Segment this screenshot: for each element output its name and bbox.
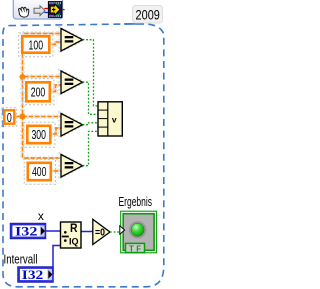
toolbar xyxy=(13,0,62,19)
input arrow glyph xyxy=(120,226,125,234)
ants outline around constant 300 xyxy=(24,122,55,147)
ants outline around constant 400 xyxy=(24,159,55,184)
tool icon: film/vi body xyxy=(48,2,62,18)
ants outline around constant 0 xyxy=(2,108,17,126)
control terminal I32 Intervall xyxy=(18,267,54,283)
svg-text:400: 400 xyxy=(32,164,47,179)
boolean wire from comparator 4 to OR input 4 xyxy=(83,131,99,165)
numeric constant 300 xyxy=(27,126,50,143)
svg-text:TF: TF xyxy=(129,245,144,254)
svg-text:=0: =0 xyxy=(95,227,105,239)
comparator Equal? 4 xyxy=(61,155,83,178)
boolean wire from comparator 1 to OR input 1 xyxy=(83,40,99,106)
svg-text:0: 0 xyxy=(7,110,12,125)
ants outline around comparator 2 xyxy=(59,69,85,96)
equal to zero node xyxy=(93,219,110,244)
svg-text:2009: 2009 xyxy=(136,8,160,23)
comparator Equal? 2 xyxy=(61,71,83,94)
junction dot at branch 2 xyxy=(20,74,26,80)
svg-text:R: R xyxy=(70,221,78,235)
control terminal I32 x xyxy=(10,223,46,239)
tool icon: film/vi yellow arrow xyxy=(50,4,60,15)
svg-text:v: v xyxy=(112,115,117,125)
svg-text:IQ: IQ xyxy=(69,237,79,247)
boolean wire from comparator 2 to OR input 2 xyxy=(83,82,99,114)
boolean indicator Ergebnis xyxy=(121,211,157,253)
numeric constant 200 xyxy=(26,82,50,101)
svg-text:x: x xyxy=(38,209,44,223)
ants outline around comparator 3 xyxy=(59,112,85,139)
comparator Equal? 3 xyxy=(61,114,83,137)
LED xyxy=(129,221,146,238)
svg-text:300: 300 xyxy=(31,127,46,142)
compound arithmetic OR node xyxy=(98,102,122,136)
free label 2009 xyxy=(133,5,163,23)
tool icon: film/vi red exit lead xyxy=(62,9,65,11)
ants outline around comparator 4 xyxy=(59,153,85,180)
numeric constant 400 xyxy=(28,163,51,180)
tool icon: film/vi blue lead xyxy=(44,12,48,14)
wire: Intervall terminal up to quotient node xyxy=(53,246,61,275)
tool icon: arrow xyxy=(34,6,45,16)
TF tab xyxy=(126,243,145,252)
svg-text:100: 100 xyxy=(29,37,44,52)
junction dot at branch 3 xyxy=(20,114,26,120)
boolean wire equal-zero to indicator xyxy=(110,231,120,233)
svg-text:I32: I32 xyxy=(22,267,44,282)
numeric constant 0 xyxy=(4,110,14,123)
wire: quotient node to equal-zero node xyxy=(81,231,93,233)
svg-text:200: 200 xyxy=(31,84,46,99)
svg-text:I32: I32 xyxy=(15,224,38,239)
ants outline around constant 200 xyxy=(23,79,54,105)
svg-text:Intervall: Intervall xyxy=(4,252,38,267)
svg-text:Ergebnis: Ergebnis xyxy=(119,194,153,209)
numeric constant 100 xyxy=(22,36,49,52)
ants outline around comparator 1 xyxy=(59,27,85,54)
wire: orange integer wires (rail, branches, constant stubs) with selection ants xyxy=(15,34,62,172)
boolean wire from comparator 3 to OR input 3 xyxy=(83,123,99,125)
selection marquee (dashed blue rounded rectangle) xyxy=(3,24,164,287)
quotient and remainder node xyxy=(61,222,82,248)
wire: x terminal to quotient node xyxy=(46,230,61,232)
tool icon: hand xyxy=(19,7,29,17)
tool icon: film/vi red lead xyxy=(44,8,48,10)
comparator Equal? 1 xyxy=(61,29,83,52)
ants outline around constant 100 xyxy=(19,33,53,57)
